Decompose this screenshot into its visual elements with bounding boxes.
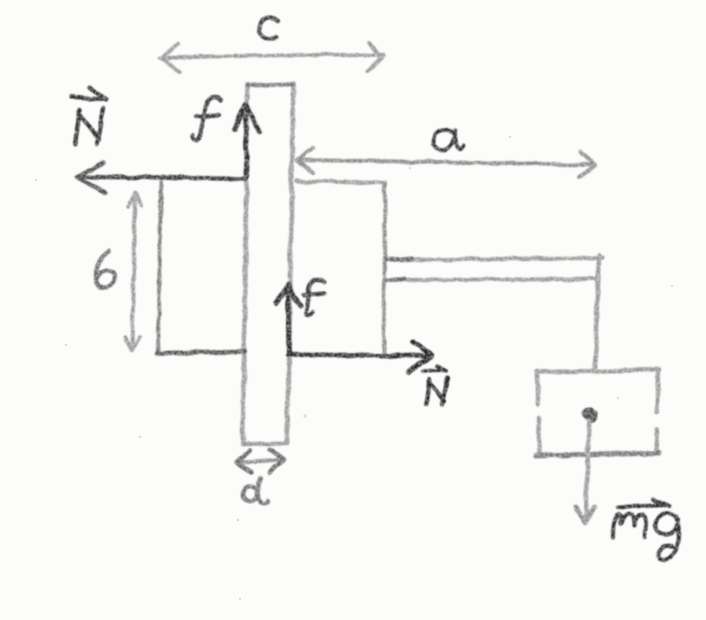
label d bbox=[243, 478, 269, 503]
wire beam top edge bbox=[385, 258, 602, 260]
dimension a arrow bbox=[298, 160, 590, 165]
label g bbox=[656, 514, 679, 560]
dimension d arrow bbox=[240, 460, 281, 462]
hanging block top edge bbox=[537, 370, 659, 372]
label N top-left bbox=[75, 109, 103, 144]
wire vertical pole right edge bbox=[287, 85, 293, 443]
hanging block bottom edge bbox=[535, 453, 659, 456]
wire vertical pole left edge bbox=[243, 85, 247, 443]
wire right block top edge bbox=[297, 181, 385, 183]
label a bbox=[433, 130, 464, 150]
dimension c arrow bbox=[160, 55, 384, 58]
wire left block bottom edge bbox=[157, 352, 245, 353]
wire pole bottom edge bbox=[242, 443, 288, 444]
hanging block right edge bbox=[656, 371, 658, 452]
label c bbox=[259, 17, 278, 39]
dimension B arrow bbox=[132, 194, 135, 350]
vector bar over right N bbox=[423, 366, 446, 371]
wire pole top edge bbox=[247, 84, 293, 85]
vector bar over top-left N bbox=[71, 87, 106, 100]
label N right bbox=[426, 378, 447, 404]
force mg arrow bbox=[586, 421, 589, 515]
wire right block right edge bbox=[384, 183, 385, 354]
node center of mass dot bbox=[589, 414, 591, 416]
wire beam bottom edge bbox=[385, 279, 597, 280]
label f top bbox=[192, 97, 221, 140]
label B bbox=[96, 251, 115, 287]
force f top arrow bbox=[245, 107, 247, 177]
label f mid bbox=[304, 280, 325, 315]
wire left block left edge bbox=[158, 182, 161, 352]
wire beam right end vertical bbox=[595, 256, 599, 370]
hanging block left edge bbox=[537, 374, 539, 452]
force f mid arrow bbox=[288, 291, 289, 355]
force N left arrow bbox=[84, 177, 246, 179]
force N right arrow (dark bottom line) bbox=[288, 355, 427, 356]
label m bbox=[612, 514, 646, 537]
vector bar over mg bbox=[617, 500, 669, 507]
